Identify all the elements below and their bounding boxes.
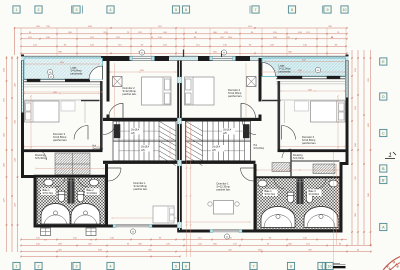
svg-text:Hol: Hol	[254, 145, 258, 147]
svg-text:16x18,4: 16x18,4	[131, 130, 140, 132]
svg-text:parchet lam.: parchet lam.	[134, 187, 149, 191]
svg-text:5: 5	[175, 265, 177, 269]
svg-text:8: 8	[290, 265, 292, 269]
svg-text:S=3,70mp: S=3,70mp	[293, 157, 305, 160]
svg-text:1: 1	[16, 8, 18, 12]
svg-text:D: D	[382, 95, 385, 99]
svg-text:10: 10	[343, 8, 347, 12]
svg-text:S=5,17mp: S=5,17mp	[265, 194, 276, 196]
svg-text:2: 2	[38, 8, 40, 12]
svg-text:3: 3	[76, 265, 78, 269]
svg-text:1: 1	[16, 265, 18, 269]
svg-text:Baie 3: Baie 3	[309, 190, 317, 193]
svg-text:5: 5	[175, 8, 177, 12]
svg-text:S=6,20mp: S=6,20mp	[254, 148, 265, 150]
svg-text:4: 4	[110, 265, 112, 269]
svg-text:7: 7	[255, 8, 257, 12]
svg-text:parchet lam.: parchet lam.	[53, 138, 68, 142]
svg-text:1G: 1G	[90, 240, 93, 242]
svg-text:pardoseala: pardoseala	[71, 73, 83, 76]
svg-text:3: 3	[76, 8, 78, 12]
svg-text:2: 2	[38, 265, 40, 269]
svg-text:9: 9	[327, 8, 329, 12]
svg-text:1: 1	[388, 152, 392, 159]
svg-text:4: 4	[110, 8, 112, 12]
svg-text:6: 6	[185, 8, 187, 12]
svg-text:S=4,94mp: S=4,94mp	[309, 194, 320, 196]
svg-text:Hol: Hol	[93, 146, 97, 148]
svg-text:parchet lam.: parchet lam.	[302, 141, 317, 145]
svg-text:7: 7	[253, 265, 255, 269]
svg-text:C: C	[382, 132, 385, 136]
svg-text:S=5,30mp: S=5,30mp	[35, 157, 47, 160]
svg-text:6: 6	[185, 265, 187, 269]
svg-text:1G: 1G	[44, 240, 47, 242]
svg-text:16x18,4: 16x18,4	[212, 147, 221, 149]
svg-text:parchet lam.: parchet lam.	[217, 188, 232, 192]
svg-text:B': B'	[382, 179, 385, 183]
svg-text:16x18,4: 16x18,4	[223, 130, 232, 132]
svg-text:16x18,4: 16x18,4	[141, 147, 150, 149]
svg-text:pardoseala: pardoseala	[279, 71, 291, 74]
svg-text:parchet lam.: parchet lam.	[123, 92, 138, 96]
svg-text:Baie 1: Baie 1	[265, 190, 273, 193]
svg-text:parchet lam.: parchet lam.	[228, 94, 243, 98]
svg-text:S=4,04mp: S=4,04mp	[93, 149, 104, 151]
svg-text:S=5,17mp: S=5,17mp	[43, 193, 54, 195]
svg-text:Baie 1: Baie 1	[43, 189, 51, 192]
svg-text:S=4,94mp: S=4,94mp	[87, 193, 98, 195]
svg-text:8: 8	[291, 8, 293, 12]
svg-text:Baie 2: Baie 2	[87, 189, 95, 192]
svg-text:10: 10	[328, 265, 332, 269]
